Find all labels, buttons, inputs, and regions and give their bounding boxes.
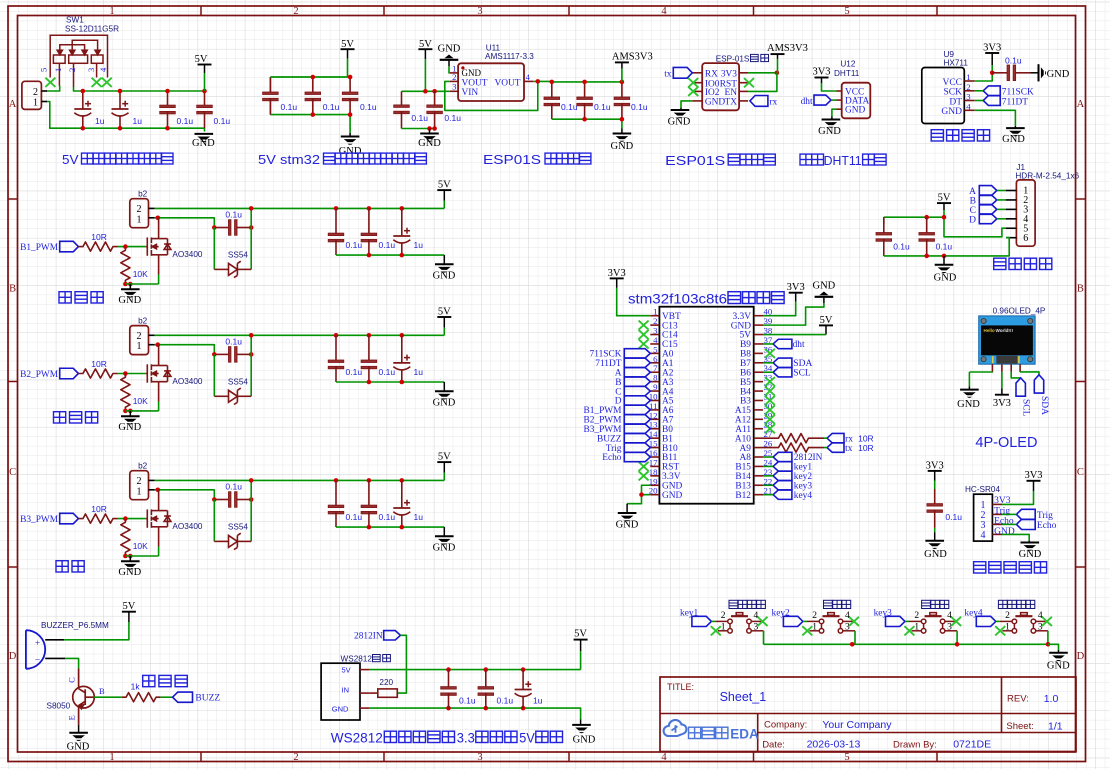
wire AMS3V3 down to EN bbox=[748, 73, 777, 92]
ground symbol (HX711) bbox=[1006, 128, 1025, 136]
wire bus to ground bbox=[1048, 644, 1059, 650]
net label key3 (pin 22) bbox=[773, 481, 812, 492]
wire pin2 to 5V rail bbox=[155, 479, 445, 481]
svg-text:0.1u: 0.1u bbox=[1005, 55, 1022, 65]
top rail wire bbox=[270, 76, 350, 78]
wire dht flag to DATA bbox=[831, 99, 837, 101]
capacitor 0.1u #2 bbox=[197, 91, 213, 128]
junction bbox=[367, 525, 372, 530]
bottom rail (3V3 out) bbox=[552, 119, 622, 128]
ground (gate pulldown) bbox=[129, 556, 131, 561]
pushbutton switch (参数减) bbox=[909, 613, 957, 634]
svg-text:2: 2 bbox=[721, 611, 726, 621]
junction bbox=[550, 80, 555, 85]
capacitor 0.1u (pump bank 2) bbox=[361, 208, 377, 255]
no-connect X on MCU pin 2 bbox=[639, 321, 649, 330]
net label 711DT bbox=[983, 96, 1028, 108]
junction bbox=[348, 112, 353, 117]
wire cap to ground bbox=[1031, 72, 1039, 74]
svg-text:TITLE:: TITLE: bbox=[667, 682, 694, 692]
svg-text:IO2: IO2 bbox=[705, 88, 720, 98]
switch pin numbers bbox=[721, 611, 759, 632]
svg-text:5V: 5V bbox=[195, 54, 208, 65]
svg-text:GND: GND bbox=[118, 422, 141, 433]
junction bbox=[446, 706, 451, 711]
net label B3_PWM bbox=[20, 513, 78, 525]
cap rail down left bbox=[883, 217, 885, 224]
svg-text:key4: key4 bbox=[964, 608, 983, 618]
capacitor 0.1u (stm32 filter 3) bbox=[342, 77, 358, 115]
svg-text:1: 1 bbox=[137, 486, 142, 497]
junction bbox=[212, 225, 217, 230]
svg-text:0.1u: 0.1u bbox=[346, 240, 363, 250]
svg-text:GND: GND bbox=[611, 141, 634, 152]
junction bbox=[311, 75, 316, 80]
ground flag (MCU pin39) bbox=[813, 281, 836, 292]
junction bbox=[367, 478, 372, 483]
svg-text:1: 1 bbox=[812, 623, 817, 633]
svg-text:tx: tx bbox=[845, 444, 853, 454]
bottom rail (stepper) bbox=[884, 238, 1009, 256]
svg-text:3: 3 bbox=[947, 623, 952, 633]
key3 function label bbox=[922, 600, 931, 608]
wire 5V to rail and pin5 bbox=[943, 210, 945, 217]
svg-text:VCC: VCC bbox=[942, 78, 962, 88]
display module 0.96 OLED 4P bbox=[979, 316, 1035, 364]
svg-text:0.1u: 0.1u bbox=[444, 113, 461, 123]
junction bbox=[212, 352, 217, 357]
net label B2_PWM bbox=[20, 368, 78, 380]
power flag 5V (pump) bbox=[437, 452, 451, 473]
bottom rail (pump bank) bbox=[336, 526, 444, 528]
bottom rail (pump bank) bbox=[336, 254, 444, 256]
title block bbox=[660, 677, 1076, 752]
no-connect X on IO2 bbox=[688, 87, 698, 96]
svg-text:C: C bbox=[9, 467, 16, 478]
no-connect X on IO0 bbox=[688, 78, 698, 87]
junction bbox=[446, 667, 451, 672]
wire key1 flag to switch bbox=[711, 620, 715, 622]
svg-text:5V stm32: 5V stm32 bbox=[258, 152, 320, 167]
svg-text:10K: 10K bbox=[133, 541, 148, 551]
svg-text:5: 5 bbox=[39, 68, 49, 72]
svg-text:0.1u: 0.1u bbox=[323, 102, 340, 112]
svg-text:GND: GND bbox=[118, 567, 141, 578]
capacitor 0.1u (pump bank 1) bbox=[328, 335, 344, 382]
svg-text:GND: GND bbox=[813, 281, 836, 292]
svg-text:10R: 10R bbox=[91, 504, 107, 514]
svg-text:5V: 5V bbox=[438, 180, 451, 191]
junction bbox=[249, 352, 254, 357]
svg-text:1.0: 1.0 bbox=[1044, 693, 1059, 705]
junction bbox=[81, 126, 86, 131]
svg-text:GND: GND bbox=[845, 106, 866, 116]
junction bbox=[334, 478, 339, 483]
wire key2 pin3 to bus bbox=[854, 631, 856, 645]
no-connect X on SW1 pin 3 bbox=[92, 78, 102, 87]
resistor 10R (gate) bbox=[78, 369, 117, 378]
svg-text:1u: 1u bbox=[95, 116, 105, 126]
wire pin37 to dht flag bbox=[763, 343, 773, 345]
wire snubber right leg bbox=[250, 208, 252, 269]
SW1 pin numbers bbox=[39, 67, 108, 72]
no-connect X on SW1 pin 5 bbox=[45, 78, 55, 87]
power flag 3V3 (ultrasonic cap) bbox=[926, 460, 944, 480]
svg-text:3V3: 3V3 bbox=[812, 67, 830, 78]
transistor AO3400 (NMOS) bbox=[146, 490, 171, 547]
svg-text:3: 3 bbox=[754, 623, 759, 633]
svg-text:Echo: Echo bbox=[1037, 521, 1057, 531]
svg-text:0.1u: 0.1u bbox=[225, 482, 242, 492]
svg-text:0721DE: 0721DE bbox=[953, 739, 991, 751]
junction bbox=[639, 492, 644, 497]
ground symbol (MCU) bbox=[618, 513, 637, 521]
wire SCK to flag bbox=[975, 90, 984, 92]
power flag 3V3 (MCU VBT) bbox=[608, 268, 626, 288]
svg-text:3V3: 3V3 bbox=[1024, 470, 1042, 481]
wire VIN rail bbox=[402, 90, 450, 92]
svg-text:SS54: SS54 bbox=[228, 250, 248, 259]
connector b2 (抽水泵) bbox=[130, 317, 155, 355]
svg-text:1u: 1u bbox=[133, 116, 143, 126]
svg-text:GND: GND bbox=[934, 272, 957, 283]
svg-text:C: C bbox=[67, 677, 77, 683]
capacitor 0.1u (stepper 2) bbox=[919, 217, 935, 256]
no-connect X on SW1 pin 4 bbox=[102, 78, 112, 87]
net label Trig (HC-SR04) bbox=[1016, 509, 1053, 521]
resistor 220 (data line) bbox=[370, 689, 398, 697]
svg-text:GND: GND bbox=[332, 704, 349, 713]
svg-text:3.3: 3.3 bbox=[457, 731, 475, 746]
wire gate node bbox=[118, 246, 146, 248]
connector HC-SR04 bbox=[974, 494, 1015, 541]
svg-text:0.96OLED_4P: 0.96OLED_4P bbox=[993, 306, 1046, 315]
wire 3V3 to pin1 bbox=[617, 288, 651, 316]
wire 3V3 to VCC bbox=[822, 83, 837, 91]
junction bbox=[156, 216, 161, 221]
switch pin numbers bbox=[812, 611, 850, 632]
power flag 5V (input section) bbox=[195, 54, 212, 73]
svg-text:2812IN: 2812IN bbox=[354, 632, 383, 642]
key1 function label bbox=[729, 600, 738, 608]
wire 5V to buzzer + bbox=[64, 622, 129, 640]
svg-text:0.1u: 0.1u bbox=[561, 102, 578, 112]
regulator U11 AMS1117-3.3 bbox=[450, 63, 534, 101]
svg-text:0.1u: 0.1u bbox=[225, 210, 242, 220]
junction bbox=[582, 80, 587, 85]
capacitor 0.1u (pump bank 1) bbox=[328, 480, 344, 527]
capacitor 1u (WS2812) bbox=[515, 670, 532, 709]
wire gate node bbox=[118, 518, 146, 520]
capacitor 0.1u (pump bank 1) bbox=[328, 208, 344, 255]
svg-text:ESP01S: ESP01S bbox=[665, 153, 725, 168]
ground (MCU) bbox=[626, 504, 628, 513]
net label BUZZ bbox=[173, 692, 221, 704]
ground (DHT11) bbox=[831, 117, 833, 120]
MCU U? stm32f103c8t6 bbox=[659, 307, 753, 504]
svg-text:GND: GND bbox=[957, 399, 980, 410]
svg-text:5V: 5V bbox=[938, 193, 951, 204]
wire GND pin bbox=[681, 101, 692, 108]
svg-text:GND: GND bbox=[994, 527, 1015, 537]
wire gate node bbox=[118, 373, 146, 375]
wire pin2 to Trig flag bbox=[1002, 513, 1016, 515]
svg-text:3: 3 bbox=[477, 752, 482, 763]
power flag 3V3 (HX711) bbox=[983, 42, 1001, 65]
wire GND rail (WS2812) bbox=[370, 708, 581, 719]
power flag 5V (stm32 filter) bbox=[341, 39, 355, 59]
ground (pump bank) bbox=[443, 255, 445, 264]
switch SW1 designator label bbox=[65, 16, 119, 34]
no-connect X on key3 pin4 bbox=[951, 617, 961, 626]
no-connect X on MCU pin 32 bbox=[765, 386, 775, 395]
junction bbox=[432, 89, 437, 94]
net label key2 bbox=[772, 608, 803, 626]
svg-text:SW1: SW1 bbox=[66, 16, 84, 25]
ground symbol (ultrasonic cap) bbox=[925, 541, 944, 549]
J1 designator labels bbox=[1015, 163, 1079, 181]
svg-text:2: 2 bbox=[1005, 611, 1010, 621]
wire snubber left leg bbox=[213, 354, 215, 396]
junction bbox=[123, 554, 128, 559]
no-connect X on MCU pin 36 bbox=[765, 349, 775, 358]
capacitor 0.1u (snubber) bbox=[214, 347, 251, 363]
svg-text:B: B bbox=[99, 686, 105, 696]
capacitor 0.1u (WS2812 1) bbox=[441, 670, 457, 709]
svg-text:GND: GND bbox=[1047, 660, 1070, 671]
junction bbox=[942, 215, 947, 220]
power flag 5V (buzzer) bbox=[122, 601, 136, 622]
wire pin21 to key4 flag bbox=[763, 494, 773, 496]
svg-text:World!!!: World!!! bbox=[996, 328, 1014, 333]
capacitor 0.1u (stm32 filter 2) bbox=[305, 77, 321, 115]
svg-text:GND: GND bbox=[462, 68, 482, 78]
net label tx bbox=[664, 67, 692, 79]
capacitor 0.1u (pump bank 2) bbox=[361, 335, 377, 382]
svg-text:D: D bbox=[969, 215, 976, 225]
wire cap to ground bbox=[934, 528, 936, 532]
junction bbox=[367, 380, 372, 385]
wire SW1 pin2 to 5V rail bbox=[74, 87, 205, 91]
module U? ESP-01S bbox=[692, 63, 748, 110]
no-connect X on key1 pin1 bbox=[711, 626, 721, 635]
ground flag above AMS1117 pin1 bbox=[438, 44, 461, 55]
polarized capacitor 1u #2 bbox=[112, 91, 129, 128]
wire OLED GND pin bbox=[969, 371, 992, 373]
svg-text:key3: key3 bbox=[874, 608, 893, 618]
svg-text:0.1u: 0.1u bbox=[497, 696, 514, 706]
output rail AMS3V3 bbox=[552, 81, 622, 83]
no-connect X on MCU pin 17 bbox=[639, 462, 649, 471]
svg-text:10K: 10K bbox=[133, 396, 148, 406]
key2 function label bbox=[824, 600, 833, 608]
ground (input section) bbox=[195, 134, 214, 142]
wire 2812IN to resistor bbox=[397, 635, 406, 693]
ground (stepper) bbox=[943, 256, 945, 265]
junction bbox=[118, 126, 123, 131]
svg-text:DHT11: DHT11 bbox=[834, 69, 860, 78]
svg-text:1: 1 bbox=[137, 214, 142, 225]
svg-text:GND: GND bbox=[924, 549, 947, 560]
svg-text:3V3: 3V3 bbox=[993, 398, 1011, 409]
connector P1 (2-pin input) bbox=[22, 81, 47, 109]
no-connect X on key3 pin1 bbox=[904, 626, 914, 635]
svg-text:b2: b2 bbox=[138, 317, 148, 326]
wire OLED SCL pin bbox=[1011, 372, 1021, 378]
junction bbox=[484, 706, 489, 711]
section title: 补水泵 bbox=[59, 292, 71, 303]
svg-text:1k: 1k bbox=[131, 682, 141, 692]
svg-text:1u: 1u bbox=[414, 512, 424, 522]
svg-text:D: D bbox=[9, 651, 17, 662]
svg-text:IN: IN bbox=[342, 686, 350, 695]
junction bbox=[249, 497, 254, 502]
capacitor 0.1u (3V3 out 1) bbox=[544, 82, 560, 119]
net label SCL (pin34) bbox=[773, 368, 811, 379]
svg-text:1: 1 bbox=[109, 6, 114, 17]
junction bbox=[367, 206, 372, 211]
wire 5V stem (WS2812) bbox=[580, 651, 582, 669]
junction bbox=[156, 342, 161, 347]
ground (stm32 filter) bbox=[349, 133, 351, 137]
junction bbox=[311, 112, 316, 117]
svg-text:EDA: EDA bbox=[730, 727, 759, 742]
svg-text:SDA: SDA bbox=[1039, 396, 1049, 415]
svg-text:Company:: Company: bbox=[764, 719, 807, 730]
module U12 DHT11 bbox=[837, 83, 871, 119]
svg-text:GND: GND bbox=[192, 138, 215, 149]
svg-text:2026-03-13: 2026-03-13 bbox=[807, 739, 861, 751]
capacitor 1u (pump bank) bbox=[393, 335, 410, 382]
svg-text:1: 1 bbox=[137, 341, 142, 352]
no-connect X on key2 pin4 bbox=[849, 617, 859, 626]
svg-text:B: B bbox=[1077, 284, 1084, 295]
svg-text:3: 3 bbox=[1038, 623, 1043, 633]
svg-text:1u: 1u bbox=[414, 367, 424, 377]
svg-text:5V: 5V bbox=[62, 152, 79, 167]
svg-text:4: 4 bbox=[947, 611, 952, 621]
svg-text:4: 4 bbox=[661, 752, 667, 763]
pushbutton switch (参数加) bbox=[807, 613, 855, 634]
diode SS54 (flyback) bbox=[214, 261, 251, 277]
resistor 10K (gate pulldown) bbox=[121, 374, 130, 411]
svg-text:3V3: 3V3 bbox=[787, 282, 805, 293]
capacitor 0.1u (ultrasonic) bbox=[927, 489, 943, 528]
svg-text:key4: key4 bbox=[794, 491, 813, 501]
power flag 5V (pump) bbox=[437, 180, 451, 201]
power flag 3V3 (HC-SR04) bbox=[1024, 470, 1042, 491]
svg-text:5V: 5V bbox=[342, 666, 351, 675]
resistor 10K (gate pulldown) bbox=[121, 519, 130, 556]
svg-text:C: C bbox=[1077, 467, 1084, 478]
svg-text:GND: GND bbox=[118, 295, 141, 306]
capacitor 1u (pump bank) bbox=[393, 208, 410, 255]
svg-text:0.1u: 0.1u bbox=[936, 241, 953, 251]
wire 5V rail (WS2812) bbox=[370, 669, 581, 671]
svg-text:5V: 5V bbox=[341, 39, 354, 50]
svg-text:SS54: SS54 bbox=[228, 377, 248, 386]
ground symbol (pump bank) bbox=[435, 391, 454, 399]
resistor 10R (A9/tx) bbox=[763, 443, 824, 452]
wire 10K to source bbox=[125, 283, 158, 285]
no-connect X on MCU pin 29 bbox=[765, 415, 775, 424]
junction bbox=[334, 206, 339, 211]
junction bbox=[249, 206, 254, 211]
wire pin34 to SCL flag bbox=[763, 371, 773, 373]
svg-text:5V: 5V bbox=[419, 39, 432, 50]
svg-text:B3_PWM: B3_PWM bbox=[20, 515, 59, 525]
junction bbox=[128, 282, 133, 287]
svg-text:tx: tx bbox=[664, 69, 672, 79]
svg-text:DHT11: DHT11 bbox=[824, 153, 862, 168]
svg-text:AMS3V3: AMS3V3 bbox=[767, 43, 808, 54]
junction bbox=[123, 516, 128, 521]
svg-text:711SCK: 711SCK bbox=[1002, 88, 1034, 98]
wire snubber left leg bbox=[213, 228, 215, 270]
net label tx (pin26) bbox=[827, 443, 874, 454]
MCU right pins 40-21 bbox=[731, 307, 773, 501]
svg-text:AO3400: AO3400 bbox=[172, 250, 202, 259]
net label 711SCK bbox=[983, 86, 1034, 98]
wire resistor to rx flag bbox=[824, 437, 827, 439]
svg-text:3: 3 bbox=[845, 623, 850, 633]
capacitor 0.1u (stepper 1) bbox=[876, 217, 892, 256]
ground symbol (OLED) bbox=[960, 390, 979, 398]
ground (sideways, HX711) bbox=[1039, 64, 1047, 81]
junction bbox=[521, 706, 526, 711]
ground (pump bank) bbox=[443, 382, 445, 391]
svg-text:0.1u: 0.1u bbox=[631, 102, 648, 112]
svg-text:Sheet:: Sheet: bbox=[1006, 721, 1033, 732]
wire pin25 to 2812IN flag bbox=[763, 456, 773, 458]
power flag 5V (pump) bbox=[437, 306, 451, 327]
svg-text:E: E bbox=[67, 715, 77, 720]
junction bbox=[400, 253, 405, 258]
svg-text:A: A bbox=[1077, 99, 1085, 110]
ground (gate pulldown) bbox=[129, 284, 131, 289]
junction bbox=[367, 333, 372, 338]
junction bbox=[123, 409, 128, 414]
svg-text:6: 6 bbox=[1023, 233, 1028, 244]
svg-text:b2: b2 bbox=[138, 190, 148, 199]
net label key4 bbox=[964, 608, 995, 626]
svg-text:Trig: Trig bbox=[1037, 511, 1053, 521]
svg-text:10R: 10R bbox=[858, 443, 874, 453]
junction bbox=[850, 642, 855, 647]
MCU left net labels (pins 5-16) bbox=[583, 349, 650, 464]
svg-text:4: 4 bbox=[966, 101, 971, 111]
module WS2812 strip connector bbox=[321, 663, 370, 720]
svg-text:GND: GND bbox=[668, 116, 691, 127]
junction bbox=[202, 89, 207, 94]
power flag 3V3 (MCU right) bbox=[787, 282, 805, 302]
svg-text:2: 2 bbox=[966, 82, 970, 92]
svg-text:WS2812: WS2812 bbox=[331, 731, 383, 746]
wire pin1 to snubber bbox=[155, 218, 215, 228]
net label SDA (OLED, vertical) bbox=[1034, 375, 1049, 415]
wire key4 pin3 to bus bbox=[1047, 631, 1049, 645]
wire pin24 to key1 flag bbox=[763, 465, 773, 467]
net label SDA (pin35) bbox=[773, 358, 812, 369]
wire pin23 to key2 flag bbox=[763, 475, 773, 477]
section title: 气泵 bbox=[56, 561, 68, 572]
ground (pump bank) bbox=[443, 527, 445, 536]
svg-text:2: 2 bbox=[452, 72, 456, 82]
svg-text:GND: GND bbox=[433, 271, 456, 282]
svg-text:0.1u: 0.1u bbox=[379, 512, 396, 522]
junction bbox=[400, 478, 405, 483]
wire 10K to source bbox=[125, 555, 158, 557]
